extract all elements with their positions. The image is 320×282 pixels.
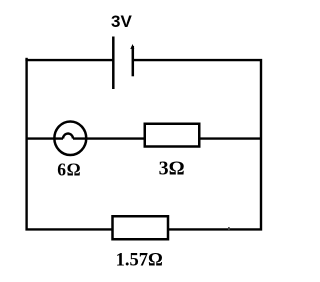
battery B1 short plate <box>132 46 135 76</box>
svg-text:3V: 3V <box>111 12 132 31</box>
lamp L1 circle <box>54 121 86 155</box>
svg-text:3Ω: 3Ω <box>159 158 185 180</box>
svg-text:1.57Ω: 1.57Ω <box>116 251 163 271</box>
lamp L1 bump apex nub <box>67 132 69 134</box>
battery B1 long plate <box>112 37 115 90</box>
wire outer loop (left, bottom, right sides with top segments to battery) <box>27 60 261 229</box>
battery B1 arrow tip <box>130 44 134 49</box>
resistor R2 1.57ohm box <box>113 216 169 239</box>
wire middle branch left segment <box>27 137 63 139</box>
lamp L1 bump <box>63 134 73 139</box>
svg-text:6Ω: 6Ω <box>57 160 81 180</box>
resistor R1 3ohm box <box>145 124 200 147</box>
wire middle branch right segment <box>73 137 261 139</box>
wire bottom tick junction <box>228 227 230 230</box>
wire top-left corner nub <box>25 58 27 61</box>
